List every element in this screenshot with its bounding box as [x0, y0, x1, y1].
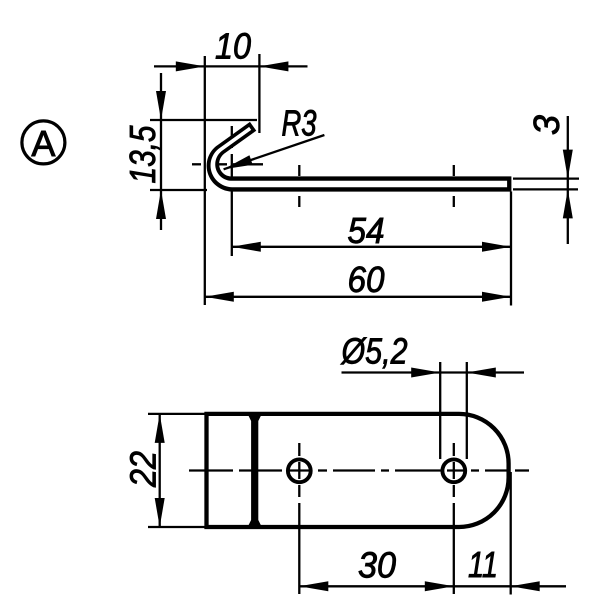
dim 22 [159, 414, 161, 527]
dimensions side view [150, 54, 579, 306]
ext bottom of 13,5 [150, 189, 207, 191]
hook profile metal [207, 122, 512, 192]
dim 13,5 vertical [160, 73, 162, 230]
svg-text:R3: R3 [282, 103, 317, 144]
svg-text:30: 30 [358, 545, 396, 586]
svg-text:13,5: 13,5 [122, 125, 163, 184]
right edge ext [510, 472, 512, 595]
dimension arrowheads side view [156, 61, 573, 301]
svg-text:3: 3 [526, 115, 567, 135]
dim 3 vertical [567, 116, 569, 244]
hole right diameter 5,2 [442, 459, 465, 482]
hole left diameter 5,2 [288, 459, 311, 482]
bend center line vertical / 54 extension [231, 126, 233, 256]
hole centerline left (side view) [283, 165, 317, 207]
dim diameter 5,2 [342, 371, 525, 373]
ext line right of 10 [258, 54, 260, 133]
svg-text:10: 10 [215, 26, 251, 67]
svg-text:A: A [31, 123, 55, 164]
fold/bend edge line (plan) [248, 414, 262, 527]
svg-text:22: 22 [123, 451, 164, 488]
hole vertical centerlines [299, 443, 454, 594]
ext line left long [204, 56, 206, 305]
plan outline [207, 414, 509, 527]
svg-text:60: 60 [348, 259, 385, 300]
horizontal centerline [189, 469, 529, 471]
dim 54 [232, 246, 511, 248]
dim 30 / 11 [299, 585, 566, 587]
dimension arrowheads plan view [155, 368, 540, 592]
right ext line down [510, 192, 512, 306]
ext lines of 3 [513, 177, 579, 179]
hole centerline right (side view) [436, 165, 470, 207]
svg-text:54: 54 [348, 210, 385, 251]
svg-text:11: 11 [468, 544, 498, 585]
ext top of 13,5 [150, 119, 257, 121]
dim 10 line [154, 65, 308, 67]
R3 leader [224, 135, 325, 169]
svg-text:Ø5,2: Ø5,2 [341, 331, 408, 372]
bend center line horizontal [192, 163, 263, 165]
view label A circle [22, 121, 65, 164]
dim 60 [205, 296, 511, 298]
dimensions plan view [148, 362, 566, 595]
